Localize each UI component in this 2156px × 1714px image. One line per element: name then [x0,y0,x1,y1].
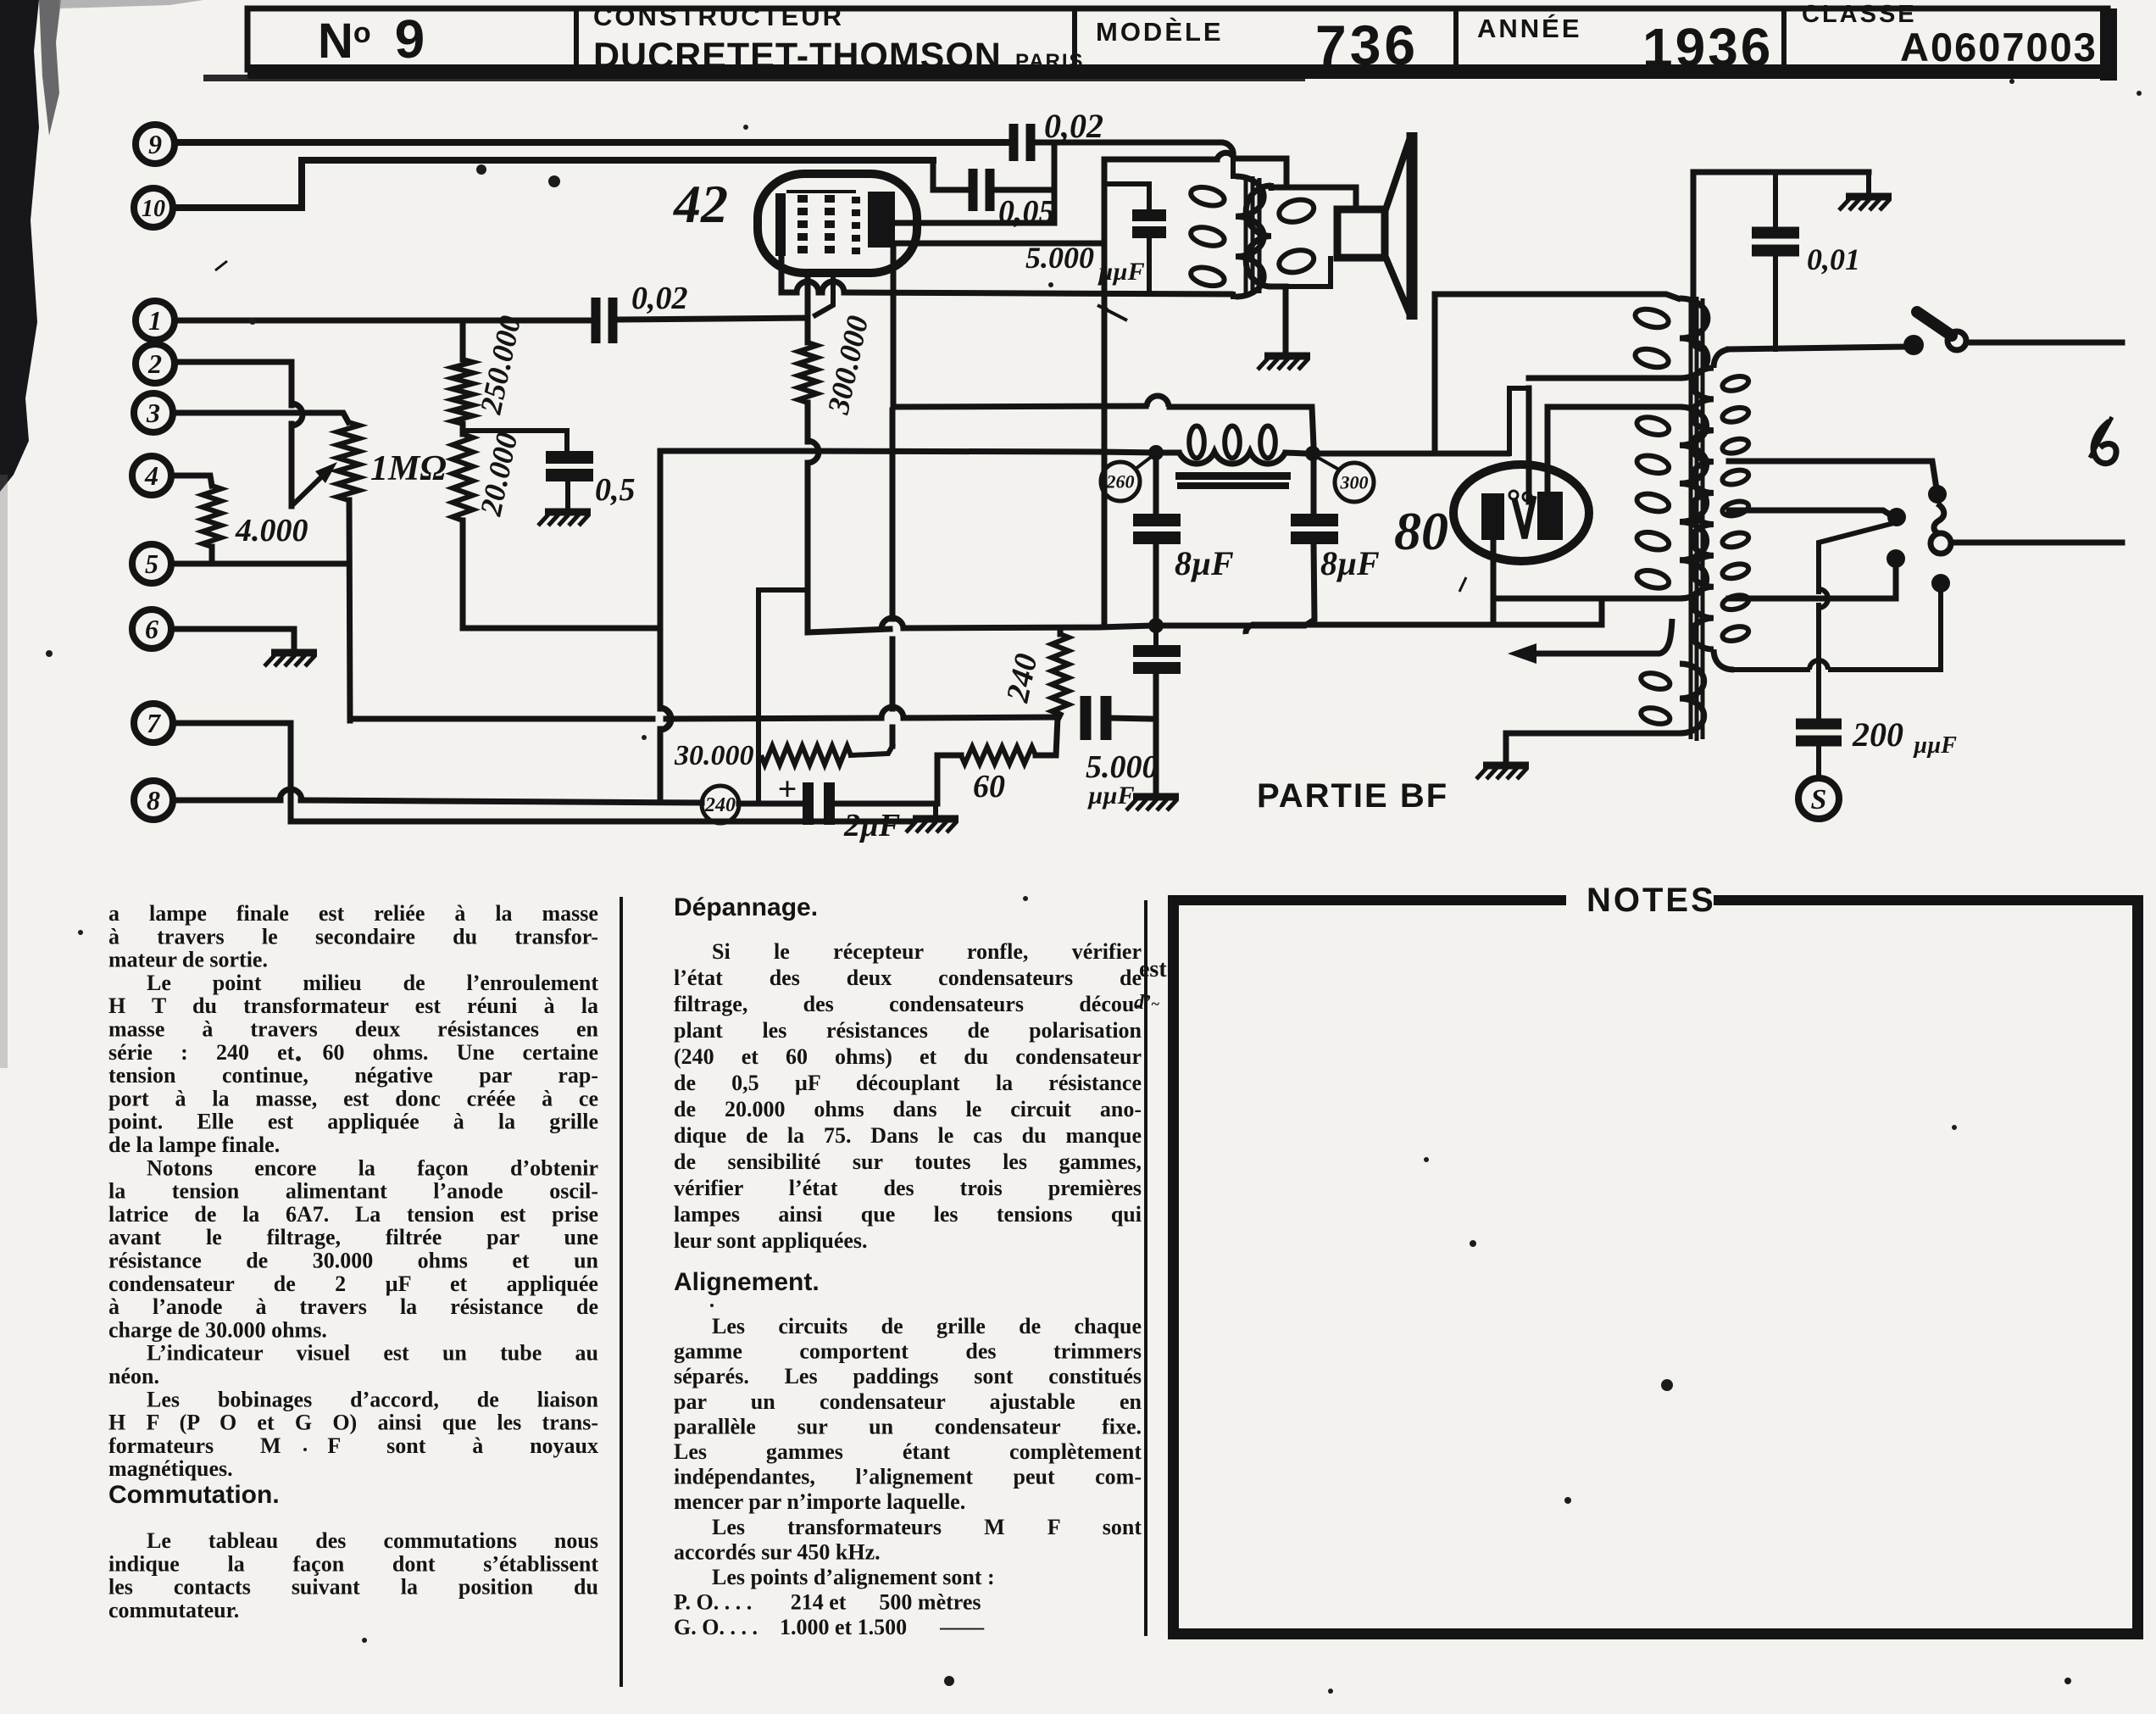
svg-text:Alignement.: Alignement. [674,1268,820,1296]
svg-text:Les circuits de grille de chaq: Les circuits de grille de chaque [712,1314,1142,1338]
terminal 1 [136,301,175,340]
svg-text:point. Elle est appliquée à la: point. Elle est appliquée à la grille [108,1110,598,1134]
svg-text:3: 3 [146,398,160,428]
selector dot 2 [1887,508,1906,526]
wire C1 to output transformer [1036,140,1220,146]
choke L1 core [1175,472,1291,480]
antenna squiggle [2093,421,2116,464]
svg-text:à travers le secondaire du tra: à travers le secondaire du transfor- [108,924,598,949]
node S terminal [1798,778,1839,819]
svg-text:µµF: µµF [1087,782,1135,810]
svg-text:6: 6 [145,614,158,644]
wire C8 stem [1153,632,1159,646]
column divider 2 [1144,900,1147,1636]
svg-text:4.000: 4.000 [235,513,308,548]
svg-text:de la lampe finale.: de la lampe finale. [108,1132,280,1157]
selector squiggle [1934,504,1944,534]
wire junction vertical [1052,142,1058,223]
svg-text:commutateur.: commutateur. [108,1598,239,1622]
wire y287 branch [893,241,1104,247]
wire junction to ground stem [933,804,938,815]
wire lineB up to tube [1509,388,1529,454]
transformer T1 secondary [1246,186,1271,287]
wire C9 to grid bus [1163,543,1314,626]
wire R1 below hop [808,441,819,463]
svg-text:indique la façon dont s’établi: indique la façon dont s’établissent [108,1551,598,1576]
wire bus to ground [1866,172,1871,193]
transformer T1 core [1244,178,1248,293]
svg-text:par un condensateur ajustable: par un condensateur ajustable en [674,1389,1142,1414]
wire 8uF-2 vertical [1311,460,1317,514]
wire V1 screen down [815,273,833,315]
tap wire 1 [1729,461,1936,483]
svg-text:résistance de 30.000 ohms et u: résistance de 30.000 ohms et un [108,1249,599,1273]
wire selector out [1952,540,2122,546]
resistor R5 4.000 [203,486,221,547]
capacitor C1 0.02 top [1009,124,1019,161]
svg-text:leur sont appliquées.: leur sont appliquées. [674,1228,868,1253]
svg-text:de sensibilité sur toutes les: de sensibilité sur toutes les gammes, [674,1149,1142,1174]
hop link over tap3 [1819,589,1828,608]
svg-text:Les points d’alignement sont :: Les points d’alignement sont : [712,1565,995,1589]
node 240 circle [702,786,739,823]
wire secondary bottom [1271,287,1286,353]
wire terminal9 to C1 [177,139,1009,146]
ground under C5 junction [913,815,959,823]
svg-text:+: + [778,770,797,808]
wire y216 branch [1104,184,1149,209]
speaker diaphragm [1407,132,1418,320]
svg-text:magnétiques.: magnétiques. [108,1456,233,1481]
scan dash [1097,305,1127,320]
hop linebus over x778 [658,707,660,712]
wire terminal5 [174,561,348,567]
svg-text:Les bobinages d’accord, de lia: Les bobinages d’accord, de liaison [147,1387,599,1411]
svg-text:8: 8 [147,785,160,815]
transformer T2 HT winding top [1586,294,1678,298]
tube V1 cathode bar [775,193,786,256]
tube V1 42 envelope [758,174,917,273]
wire bus to 240 bottom [903,717,1058,718]
wire rect top left [1104,157,1217,163]
svg-text:plant les résistances de polar: plant les résistances de polarisation [674,1018,1142,1043]
svg-text:série : 240 et 60 ohms. Une ce: série : 240 et 60 ohms. Une certaine [108,1040,598,1065]
wire V2 cathode down [1491,540,1497,625]
wire 1M bottom bus [350,716,653,722]
notes box left border [1168,895,1179,1639]
svg-text:port à la masse, est donc créé: port à la masse, est donc créée à ce [108,1086,598,1110]
svg-text:8µF: 8µF [1175,544,1234,582]
resistor R8 240 [1058,628,1064,634]
svg-text:CONSTRUCTEUR: CONSTRUCTEUR [593,2,844,31]
svg-text:mateur de sortie.: mateur de sortie. [108,948,268,972]
tube V2 plate left [1481,493,1504,540]
header divider 3 [1453,8,1459,70]
speaker coil box [1337,209,1385,258]
terminal 9 [136,125,175,164]
wire terminal2 [177,362,292,405]
wire dot4 down [1831,592,1941,670]
choke L1 [1164,450,1179,456]
wire anode bottom line [781,290,797,296]
resistor R1 300.000 [805,320,811,342]
wire terminal1 line [177,318,591,324]
node dot lineB left [1148,445,1164,460]
svg-text:µµF: µµF [1913,732,1957,759]
hop R1wire crossing lineB [803,451,1099,452]
wire C11 stems [1773,172,1778,226]
svg-text:736: 736 [1315,14,1419,76]
capacitor C7 8uF [1133,514,1181,526]
selector dot 1 [1928,485,1947,504]
svg-text:G. O. . . . 1.000 et 1.500: G. O. . . . 1.000 et 1.500 —— [674,1615,985,1639]
svg-text:Les gammes étant complètement: Les gammes étant complètement [674,1439,1142,1464]
wire R6 to 240R junction [1036,717,1058,755]
capacitor C9 8uF [1291,514,1338,526]
wire C12 to S [1816,746,1821,778]
selector ring [1931,533,1951,554]
wire terminal8 to 240 circle [301,800,702,803]
transformer T2 HT winding main [1548,404,1680,410]
svg-text:accordés sur 450 kHz.: accordés sur 450 kHz. [674,1539,881,1564]
selector dot 3 [1886,549,1905,568]
svg-text:séparés. Les paddings sont con: séparés. Les paddings sont constitués [674,1364,1142,1388]
tap wire 3 [1729,566,1896,598]
svg-text:est: est [1139,956,1167,982]
wire step to C2 [933,160,969,190]
wire terminal10 riser [175,160,933,208]
svg-text:PARTIE BF: PARTIE BF [1257,777,1448,815]
notes box right border [2132,895,2143,1639]
terminal 5 [132,544,171,583]
capacitor C4 0.5 [546,451,593,464]
terminal 10 [134,188,173,227]
svg-text:1: 1 [148,305,162,336]
svg-text:Dépannage.: Dépannage. [674,893,818,921]
header outer box [247,8,2108,70]
notes box top border [1168,895,1566,905]
svg-text:1936: 1936 [1642,17,1773,78]
wire cathode to HT CT [1254,598,1602,625]
ground top right [1846,193,1892,201]
wire B+ feed corner [1432,294,1438,454]
svg-text:Les transformateurs M F sont: Les transformateurs M F sont [712,1515,1142,1539]
capacitor C2 0.05 [969,169,978,211]
ground under T1 [1264,353,1310,360]
wire V2 anode1 up [1526,388,1532,502]
svg-text:5: 5 [145,548,158,579]
wire grid bus right [903,626,1153,628]
capacitor C11 0.01 [1752,227,1799,239]
hop R1 wire over x1053 [881,618,903,629]
capacitor C10 5000uuF [1132,209,1166,221]
svg-text:10: 10 [142,196,165,222]
svg-text:la tension alimentant l’anode: la tension alimentant l’anode oscil- [108,1179,598,1204]
svg-text:PARIS: PARIS [1015,50,1085,73]
svg-text:formateurs M F sont à noyaux: formateurs M F sont à noyaux [108,1433,598,1458]
svg-text:80: 80 [1394,501,1448,561]
svg-text:à l’anode à travers la résista: à l’anode à travers la résistance de [108,1294,598,1319]
header divider 4 [1781,8,1786,70]
column divider 1 [620,897,623,1687]
terminal 2 [136,344,175,383]
wire V2 anode2 up [1545,407,1551,492]
wire lineA [893,243,1146,407]
svg-text:DUCRETET-THOMSON: DUCRETET-THOMSON [593,36,1002,76]
top edge sliver [59,0,203,8]
hop T8 over T7 wire [280,789,302,800]
svg-text:2µF: 2µF [843,808,900,843]
speaker cone [1385,137,1410,315]
svg-text:L’indicateur visuel est un tub: L’indicateur visuel est un tube au [147,1341,598,1366]
capacitor C8 center [1133,645,1181,657]
wire link to C12 [1816,605,1821,719]
ground under filament winding [1483,762,1529,770]
resistor R2 250.000 [460,320,466,359]
ground under T6 [271,649,317,657]
wire C6 to center vert [1109,718,1153,719]
header divider 1 [574,8,579,70]
wire R2 R3 tap to C4 [463,431,567,451]
svg-text:a lampe finale est reliée à la: a lampe finale est reliée à la masse [108,901,598,926]
svg-text:1MΩ: 1MΩ [370,449,447,488]
tube V2 filament [1514,496,1534,538]
terminal 8 [134,781,173,820]
svg-text:0,5: 0,5 [595,472,636,508]
tube V2 80 envelope [1453,465,1589,561]
ground under C4 [545,509,591,516]
wire switch to edge [1966,340,2122,346]
svg-text:Le tableau des commutations no: Le tableau des commutations nous [147,1528,598,1553]
svg-text:vérifier l’état des trois prem: vérifier l’état des trois premières [674,1176,1142,1200]
capacitor C6 5000pF [1081,696,1092,740]
wire primary top to switch [1729,347,1903,349]
svg-text:60: 60 [973,769,1005,804]
svg-text:(240 et 60 ohms) et du condens: (240 et 60 ohms) et du condensateur [674,1044,1142,1069]
svg-text:les contacts suivant la positi: les contacts suivant la position du [108,1575,598,1600]
header divider 2 [1072,8,1077,70]
svg-text:42: 42 [673,174,728,234]
svg-text:NOTES: NOTES [1586,882,1716,919]
svg-text:300: 300 [1340,471,1369,492]
svg-text:0,01: 0,01 [1807,242,1860,276]
svg-text:H F (P O et G O) ainsi que les: H F (P O et G O) ainsi que les trans- [108,1411,598,1435]
wire rect left vert [1102,159,1108,626]
svg-text:A0607003: A0607003 [1900,25,2098,70]
wire bus continue [666,718,881,719]
ground center [1133,793,1179,801]
svg-text:de 20.000 ohms dans le circuit: de 20.000 ohms dans le circuit ano- [674,1097,1142,1121]
resistor R6 60 [961,747,1036,764]
wire V1 grid down [805,273,811,320]
wire bottom to winding [1734,667,1808,672]
wire terminal8 start [175,798,281,804]
capacitor C3 0.02 grid [592,298,601,343]
wire C5 to junction [831,801,937,807]
wire vert x1053 [890,410,896,619]
svg-text:de 0,5 µF découplant la résist: de 0,5 µF découplant la résistance [674,1071,1142,1095]
wire C10 down [1147,238,1152,292]
transformer T2 filament winding [1680,664,1704,733]
wire lineB left leg [658,451,664,709]
node dot grid bus [1148,618,1164,633]
svg-text:260: 260 [1106,470,1135,492]
wire secondary to speaker bottom [1271,259,1331,287]
wire bus left leg [1691,172,1697,339]
wire terminal4 [174,476,212,486]
svg-text:S: S [1811,784,1827,815]
selector dot 4 [1931,574,1950,593]
wire C3 to grid junction [619,318,808,320]
svg-text:Commutation.: Commutation. [108,1481,280,1509]
wire V1 cathode down [779,256,785,292]
node 260 circle [1101,462,1140,501]
hop T2 over T3 [292,403,303,426]
tube V2 plate right [1537,492,1563,540]
svg-text:240: 240 [704,794,736,816]
svg-text:charge de 30.000 ohms.: charge de 30.000 ohms. [108,1317,327,1342]
wire C4 to ground [565,473,570,509]
switch S1 mains [1903,335,1924,355]
svg-text:parallèle sur un condensateur: parallèle sur un condensateur fixe. [674,1414,1142,1439]
transformer T1 primary [1231,159,1236,176]
svg-text:néon.: néon. [108,1364,159,1388]
svg-text:latrice de la 6A7. La tension: latrice de la 6A7. La tension est prise [108,1202,598,1227]
svg-text:indépendantes, l’alignement pe: indépendantes, l’alignement peut com- [674,1465,1142,1489]
scan specks [476,164,486,175]
tube V1 anode [868,192,895,248]
transformer T2 primary winding [1714,349,1729,368]
capacitor C12 200uuF [1796,719,1842,730]
terminal 6 [132,609,171,648]
line B to transformer [1320,451,1508,457]
wire terminal7 [175,723,912,821]
svg-text:4: 4 [144,460,158,491]
resistor R4 1M potentiometer [337,422,359,500]
svg-text:mencer par n’importe laquelle.: mencer par n’importe laquelle. [674,1489,965,1514]
wire T2 down to wiper [289,424,295,506]
line B continue to choke [1099,452,1154,453]
wire masse riser x895 [758,590,806,802]
wire leg to T8 line [658,729,664,802]
field coil arrow [1520,619,1672,654]
svg-text:avant le filtrage, filtrée par: avant le filtrage, filtrée par une [108,1225,598,1249]
wire rect top [1235,159,1286,185]
wire C7 to dot [1153,543,1159,618]
svg-text:8µF: 8µF [1320,544,1380,582]
header bottom thick bar [247,64,2109,79]
hop bottom over link [1809,660,1828,670]
svg-text:Le point milieu de l’enrouleme: Le point milieu de l’enroulement [147,971,598,995]
wire riser to 60 [937,755,961,804]
wire secondary top to speaker [1271,187,1356,209]
transformer T2 core [1689,298,1693,739]
svg-text:filtrage, des condensateurs dé: filtrage, des condensateurs décou- [674,992,1142,1016]
capacitor C5 2uF [803,782,814,825]
svg-text:µµF: µµF [1097,258,1145,286]
svg-text:P. O. . . . 214 et: P. O. . . . 214 et 500 mètres [674,1590,981,1615]
wire anode line [895,220,1054,226]
svg-text:2: 2 [147,348,162,379]
svg-text:7: 7 [147,708,162,738]
resistor R3 20.000 [453,434,473,520]
terminal 3 [134,393,173,432]
svg-text:0,02: 0,02 [631,281,688,316]
terminal 7 [134,704,173,743]
svg-text:condensateur de 2 µF et appliq: condensateur de 2 µF et appliquée [108,1272,598,1296]
tap wire 2 [1729,510,1890,515]
hop lineB leg over bus [660,708,671,730]
selector link [1819,524,1891,592]
wire terminal6 [174,629,294,649]
hop bus over x1053 [881,707,903,718]
terminal 4 [132,456,171,495]
svg-text:tension continue, négative par: tension continue, négative par rap- [108,1063,598,1088]
notes box bottom border [1168,1628,2143,1639]
svg-text:dique de la 75. Dans le cas du: dique de la 75. Dans le cas du manque [674,1123,1142,1148]
wire 240circle to 2uF [739,801,800,807]
wire feed top [1435,292,1586,298]
tube V1 grids [797,195,808,203]
svg-text:ANNÉE: ANNÉE [1477,14,1582,43]
wire terminal3 [177,413,348,422]
wire 8uF-1 vertical [1153,460,1159,514]
svg-text:H T du transformateur est réun: H T du transformateur est réuni à la [108,993,598,1018]
resistor R7 30.000 [761,746,851,765]
node 300 circle [1335,463,1374,502]
svg-text:MODÈLE: MODÈLE [1096,17,1224,47]
svg-text:200: 200 [1852,715,1903,754]
svg-text:lampes ainsi que les tensions: lampes ainsi que les tensions qui [674,1202,1142,1227]
svg-text:0,02: 0,02 [1044,107,1103,145]
wire top right bus [1693,170,1869,175]
scanner edge band left [0,0,39,492]
tube V2 filament circles [1509,491,1518,499]
wire C2 to junction [995,187,1054,193]
svg-text:30.000: 30.000 [674,740,754,771]
svg-text:9: 9 [148,129,162,159]
node dot lineB right [1305,446,1320,461]
pot wiper arrow [292,471,327,506]
svg-text:gamme comportent des trimmers: gamme comportent des trimmers [674,1339,1142,1364]
line B horizontal [660,448,797,454]
svg-text:Notons encore la façon d’obten: Notons encore la façon d’obtenir [147,1155,598,1180]
svg-text:5.000: 5.000 [1086,749,1159,785]
svg-text:masse à travers deux résistanc: masse à travers deux résistances en [108,1017,599,1042]
header right thick bar [2100,8,2117,81]
svg-text:Si le récepteur ronfle, vérifi: Si le récepteur ronfle, vérifier [712,939,1142,964]
svg-text:l’état des deux condensateurs: l’état des deux condensateurs de [674,966,1142,990]
